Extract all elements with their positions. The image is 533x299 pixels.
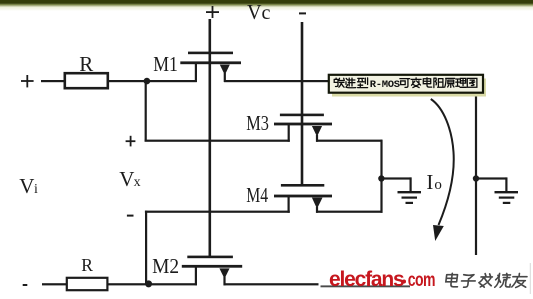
svg-text:R: R (79, 52, 93, 76)
svg-text:I: I (426, 170, 433, 194)
svg-text:M1: M1 (153, 54, 178, 77)
svg-text:R-MOS: R-MOS (370, 79, 400, 91)
svg-text:i: i (34, 182, 38, 197)
svg-text:elecfans: elecfans (329, 268, 404, 291)
svg-text:Vc: Vc (247, 2, 270, 24)
svg-text:M3: M3 (246, 112, 269, 135)
svg-text:R: R (81, 255, 93, 275)
svg-text:M4: M4 (246, 184, 268, 208)
svg-text:com: com (408, 269, 435, 291)
svg-text:x: x (134, 175, 141, 190)
svg-text:V: V (119, 167, 134, 191)
svg-text:V: V (19, 174, 34, 198)
svg-text:M2: M2 (152, 256, 179, 279)
svg-text:o: o (434, 177, 442, 193)
